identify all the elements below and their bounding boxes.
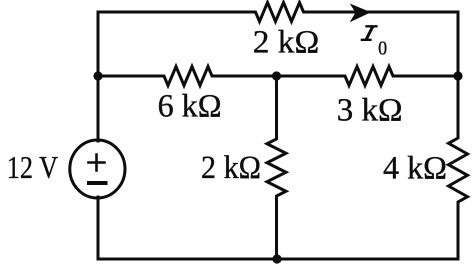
svg-text:2 kΩ: 2 kΩ: [201, 150, 261, 186]
svg-text:4 kΩ: 4 kΩ: [383, 151, 447, 187]
svg-text:0: 0: [378, 39, 387, 60]
svg-text:12 V: 12 V: [7, 150, 58, 185]
svg-text:6 kΩ: 6 kΩ: [158, 89, 222, 125]
svg-text:3 kΩ: 3 kΩ: [337, 93, 403, 129]
svg-text:2 kΩ: 2 kΩ: [253, 24, 320, 60]
